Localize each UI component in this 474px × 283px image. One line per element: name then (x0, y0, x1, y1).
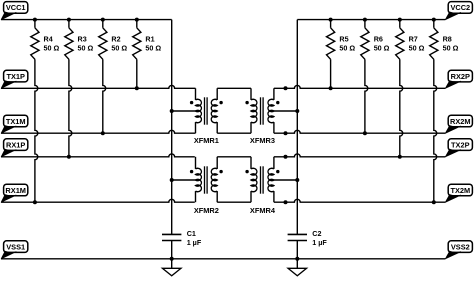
svg-text:50 Ω: 50 Ω (78, 44, 94, 53)
svg-text:VCC1: VCC1 (6, 3, 26, 12)
svg-text:RX2M: RX2M (450, 117, 471, 126)
ground left (171, 259, 173, 269)
svg-text:R6: R6 (374, 35, 383, 44)
wire left VCC rail vertical (171, 20, 173, 235)
transformer XFMR1 core (204, 97, 206, 124)
wire TX1M horizontal (1, 130, 196, 133)
svg-text:VSS1: VSS1 (6, 242, 25, 251)
transformer XFMR3 center tap wire (274, 110, 297, 112)
svg-text:R3: R3 (78, 35, 87, 44)
junction dots right transformer outputs (284, 86, 288, 90)
transformer XFMR1 secondary phase dot (219, 101, 222, 104)
resistor R6 (364, 20, 366, 28)
transformer XFMR3 core (260, 97, 262, 124)
wire right VCC rail vertical (296, 20, 298, 235)
svg-text:TX1M: TX1M (6, 117, 26, 126)
svg-text:R5: R5 (339, 35, 348, 44)
net flag VCC2 (448, 2, 472, 14)
svg-text:TX1P: TX1P (6, 72, 25, 81)
svg-text:R7: R7 (409, 35, 418, 44)
wire transformer interconnect (217, 132, 251, 134)
capacitor C2 (288, 233, 307, 235)
svg-text:XFMR2: XFMR2 (194, 206, 219, 215)
wire RX1P horizontal (1, 154, 195, 157)
transformer XFMR2 secondary phase dot (219, 170, 222, 173)
svg-text:VCC2: VCC2 (450, 3, 470, 12)
transformer XFMR1 primary phase dot (190, 101, 193, 104)
wire transformer interconnect (217, 201, 251, 203)
svg-text:1 µF: 1 µF (187, 238, 202, 247)
svg-text:TX2P: TX2P (451, 140, 470, 149)
svg-text:XFMR1: XFMR1 (194, 136, 219, 145)
svg-text:50 Ω: 50 Ω (409, 44, 425, 53)
transformer XFMR3 primary phase dot (245, 101, 248, 104)
svg-text:50 Ω: 50 Ω (374, 44, 390, 53)
svg-text:R4: R4 (44, 35, 53, 44)
transformer XFMR2 primary winding (195, 157, 197, 169)
transformer XFMR1 primary winding (195, 88, 197, 100)
junction dots center taps on rails (170, 109, 174, 113)
net flag RX1P (4, 139, 28, 151)
resistor R5 (330, 20, 332, 28)
resistor R3 (68, 20, 70, 28)
wire VCC2 top bus (297, 19, 445, 21)
transformer XFMR3 primary winding (250, 88, 252, 100)
transformer XFMR1 secondary winding (216, 88, 218, 100)
capacitor C1 (162, 233, 181, 235)
transformer XFMR3 secondary phase dot (276, 101, 279, 104)
resistor R7 (399, 20, 401, 28)
svg-text:R2: R2 (111, 35, 120, 44)
svg-text:XFMR4: XFMR4 (250, 206, 276, 215)
transformer XFMR4 secondary phase dot (276, 170, 279, 173)
svg-text:1 µF: 1 µF (312, 238, 327, 247)
wire VCC1 top bus (1, 19, 172, 21)
net flag TX1M (4, 115, 28, 127)
wire TX2M horizontal (274, 199, 446, 202)
svg-text:C1: C1 (187, 229, 196, 238)
wire VSS bottom bus (1, 258, 445, 260)
svg-text:RX2P: RX2P (451, 72, 470, 81)
transformer XFMR4 core (260, 166, 262, 193)
svg-text:50 Ω: 50 Ω (111, 44, 127, 53)
svg-text:RX1M: RX1M (5, 186, 26, 195)
resistor R2 (102, 20, 104, 28)
transformer XFMR2 core (204, 166, 206, 193)
wire RX2P horizontal (274, 85, 446, 88)
net flag TX2M (448, 184, 472, 196)
wire TX1P horizontal (1, 85, 196, 88)
svg-text:VSS2: VSS2 (451, 242, 470, 251)
junction dots VCC1 bus (33, 18, 37, 22)
ground right (296, 259, 298, 269)
svg-text:R1: R1 (145, 35, 154, 44)
wire transformer interconnect (217, 87, 251, 89)
svg-text:50 Ω: 50 Ω (145, 44, 161, 53)
net flag TX2P (448, 139, 472, 151)
net flag TX1P (4, 70, 28, 82)
transformer XFMR3 secondary winding (273, 88, 275, 100)
transformer XFMR2 primary phase dot (190, 170, 193, 173)
svg-text:50 Ω: 50 Ω (443, 44, 459, 53)
svg-text:TX2M: TX2M (450, 186, 470, 195)
wire TX2P horizontal (274, 154, 446, 157)
svg-text:XFMR3: XFMR3 (250, 136, 275, 145)
net flag RX2M (448, 115, 472, 127)
junction dots VSS bus (170, 257, 174, 261)
svg-text:RX1P: RX1P (6, 140, 25, 149)
transformer XFMR4 primary phase dot (245, 170, 248, 173)
transformer XFMR4 center tap wire (274, 179, 297, 181)
resistor R8 (433, 20, 435, 28)
net flag VSS1 (4, 241, 28, 253)
transformer XFMR1 center tap wire (172, 110, 196, 112)
transformer XFMR4 primary winding (250, 157, 252, 169)
resistor R1 (136, 20, 138, 28)
net flag VSS2 (448, 241, 472, 253)
transformer XFMR4 secondary winding (273, 157, 275, 169)
net flag VCC1 (4, 2, 28, 14)
svg-text:R8: R8 (443, 35, 452, 44)
svg-text:C2: C2 (312, 229, 321, 238)
wire transformer interconnect (217, 156, 251, 158)
junction dots VCC2 bus (329, 18, 333, 22)
transformer XFMR2 secondary winding (216, 157, 218, 169)
transformer XFMR2 center tap wire (172, 179, 196, 181)
svg-text:50 Ω: 50 Ω (339, 44, 355, 53)
wire RX1M horizontal (1, 199, 195, 202)
net flag RX2P (448, 70, 472, 82)
net flag RX1M (4, 184, 28, 196)
wire RX2M horizontal (274, 130, 446, 133)
svg-text:50 Ω: 50 Ω (44, 44, 60, 53)
resistor R4 (34, 20, 36, 28)
junction dots resistor-to-row (33, 200, 37, 204)
